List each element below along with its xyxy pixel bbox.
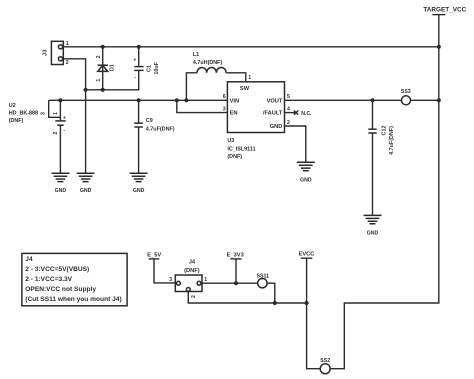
svg-text:SS11: SS11 bbox=[257, 273, 270, 279]
svg-text:SS2: SS2 bbox=[320, 358, 330, 364]
svg-text:IC_ISL9111: IC_ISL9111 bbox=[227, 147, 255, 153]
svg-text:2 - 3:VCC=5V(VBUS): 2 - 3:VCC=5V(VBUS) bbox=[25, 266, 89, 273]
svg-text:10uF: 10uF bbox=[154, 61, 160, 74]
svg-text:1: 1 bbox=[53, 112, 59, 115]
svg-text:2 - 1:VCC=3.3V: 2 - 1:VCC=3.3V bbox=[25, 276, 72, 283]
svg-text:1: 1 bbox=[204, 277, 207, 283]
svg-text:2: 2 bbox=[66, 60, 69, 66]
svg-text:N.C.: N.C. bbox=[301, 111, 312, 117]
svg-text:J3: J3 bbox=[43, 50, 49, 56]
svg-text:HD_BK-888: HD_BK-888 bbox=[9, 111, 38, 117]
svg-text:(Cut SS11 when you mount J4): (Cut SS11 when you mount J4) bbox=[25, 296, 121, 303]
svg-text:-: - bbox=[63, 127, 65, 133]
svg-text:1: 1 bbox=[66, 41, 69, 47]
svg-text:EN: EN bbox=[230, 111, 238, 117]
svg-text:-: - bbox=[134, 75, 136, 81]
svg-text:(DNF): (DNF) bbox=[227, 154, 242, 160]
svg-text:VOUT: VOUT bbox=[267, 98, 283, 104]
svg-text:1: 1 bbox=[96, 79, 102, 82]
svg-text:+: + bbox=[63, 115, 66, 121]
svg-text:5: 5 bbox=[287, 94, 290, 100]
svg-text:GND: GND bbox=[367, 230, 379, 236]
svg-text:SS3: SS3 bbox=[401, 89, 411, 95]
svg-text:GND: GND bbox=[55, 188, 67, 194]
svg-text:4.7uH(DNF): 4.7uH(DNF) bbox=[193, 60, 223, 66]
svg-text:VIN: VIN bbox=[230, 98, 239, 104]
svg-text:3: 3 bbox=[223, 107, 226, 113]
svg-text:2: 2 bbox=[287, 120, 290, 126]
svg-text:C9: C9 bbox=[146, 118, 153, 124]
svg-text:GND: GND bbox=[300, 177, 312, 183]
svg-text:4.7uF(DNF): 4.7uF(DNF) bbox=[389, 126, 395, 155]
svg-text:GND: GND bbox=[133, 188, 145, 194]
svg-text:3: 3 bbox=[169, 277, 172, 283]
svg-text:4: 4 bbox=[287, 107, 290, 113]
svg-text:L1: L1 bbox=[193, 52, 199, 58]
svg-text:(DNF): (DNF) bbox=[9, 118, 24, 124]
svg-text:OPEN:VCC not Supply: OPEN:VCC not Supply bbox=[25, 286, 96, 293]
svg-text:GND: GND bbox=[80, 188, 92, 194]
svg-text:+: + bbox=[133, 58, 136, 64]
svg-text:(DNF): (DNF) bbox=[184, 268, 200, 274]
svg-text:/FAULT: /FAULT bbox=[263, 111, 283, 117]
svg-text:J4: J4 bbox=[189, 260, 196, 266]
svg-text:D1: D1 bbox=[110, 64, 116, 71]
svg-text:SW: SW bbox=[240, 86, 250, 92]
svg-text:2: 2 bbox=[96, 55, 102, 58]
svg-text:J4: J4 bbox=[25, 256, 33, 263]
svg-text:C1: C1 bbox=[146, 65, 152, 72]
svg-text:E_5V: E_5V bbox=[147, 253, 161, 259]
svg-text:TARGET_VCC: TARGET_VCC bbox=[423, 7, 466, 14]
svg-text:C12: C12 bbox=[382, 126, 388, 136]
svg-text:4.7uF(DNF): 4.7uF(DNF) bbox=[146, 127, 175, 133]
svg-text:6: 6 bbox=[223, 94, 226, 100]
svg-text:GND: GND bbox=[270, 124, 283, 130]
svg-text:E_3V3: E_3V3 bbox=[227, 253, 244, 259]
svg-text:1: 1 bbox=[248, 75, 251, 81]
svg-text:U2: U2 bbox=[9, 103, 16, 109]
svg-text:EVCC: EVCC bbox=[299, 252, 315, 258]
svg-text:3: 3 bbox=[41, 112, 47, 115]
svg-text:2: 2 bbox=[53, 131, 59, 134]
svg-text:U3: U3 bbox=[227, 138, 234, 144]
svg-text:2: 2 bbox=[191, 295, 197, 298]
